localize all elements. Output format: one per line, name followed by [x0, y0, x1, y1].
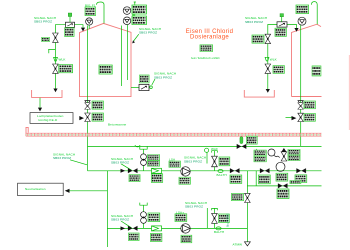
sample tap T left: [48, 50, 55, 54]
actuator symbol above left control valve: [68, 13, 72, 22]
green stub from LIA circle into tank: [88, 25, 90, 29]
svg-text:WLK: WLK: [270, 57, 278, 61]
flow arrow line 1: [121, 169, 126, 173]
drain valve funnel top: [85, 101, 90, 103]
label block right of lower circle: [132, 16, 146, 25]
tank B1 vent gooseneck: [97, 2, 105, 23]
label right of damper line 2: [148, 213, 160, 222]
actuator arrow at drain valve D2: [79, 116, 84, 120]
label below check valve line 2: [151, 233, 162, 241]
svg-text:Neutralisation: Neutralisation: [25, 187, 46, 191]
actuator above control valve B2: [280, 14, 284, 22]
label below mid valve line1: [230, 175, 242, 183]
level instrument circle on tank B2 roof: [298, 17, 306, 25]
label below control valve B2: [275, 28, 286, 36]
dosing pump 2: [181, 224, 190, 233]
check valve line 2 (green): [152, 226, 162, 231]
valve line 1 right (black bowtie): [260, 168, 269, 173]
control valve box U1 (left fill): [66, 22, 75, 27]
tray drain line: [39, 98, 41, 108]
label below right valve line1: [259, 175, 271, 184]
damper stem line 1: [143, 149, 145, 171]
isolating valve line 2 (black bowtie): [128, 226, 137, 231]
svg-text:BALTH: BALTH: [214, 230, 224, 234]
fill piping tank B2: [268, 25, 297, 35]
svg-text:WLK: WLK: [59, 58, 67, 62]
drain valve D1 tank B2: [298, 103, 304, 109]
label right of damper line 1 (two blocks): [148, 155, 160, 161]
hand valve V2 lower (vertical bowtie): [53, 64, 59, 73]
leader from signal text to line 2: [206, 208, 208, 228]
funnel above damper line 2: [140, 203, 147, 206]
pipe rack hook left end: [26, 127, 28, 136]
pulsation damper circles line 1: [141, 154, 147, 166]
label above pump 2: [175, 214, 187, 222]
green instrument circlet left of vent valve: [205, 148, 209, 152]
feed arrow into tank B1 roof: [81, 28, 85, 32]
fill line vertical below V1: [54, 42, 56, 88]
flow arrow line 2: [121, 226, 126, 230]
tank B2 vent gooseneck: [311, 2, 317, 25]
leader to signal text: [152, 79, 155, 85]
motor valve on header (black bowtie): [237, 144, 246, 149]
label below line1 valve: [129, 175, 140, 182]
funnel WLK on B2 fill line: [265, 57, 269, 61]
tiny green mark right of title: [253, 42, 255, 44]
leader to line2 valve: [121, 221, 132, 228]
label right of B2 drain valve D2: [304, 114, 315, 122]
discharge damper circle pump1: [276, 162, 285, 171]
vent umbrella line 1: [212, 151, 218, 156]
hand valve on B2 fill line: [265, 64, 271, 73]
actuator arrow + tail at B2 drain valve D2: [286, 116, 297, 120]
vent umbrella line 2: [212, 208, 218, 213]
relief valve (vertical bowtie): [281, 152, 287, 161]
hand valve V1 on fill line (vertical bowtie): [53, 33, 59, 42]
valve line1 far right (black bowtie): [297, 168, 306, 173]
svg-text:BALTH: BALTH: [217, 173, 227, 177]
label left of drop valve: [232, 193, 244, 200]
label below far right valve: [295, 175, 307, 183]
rotated green mark right of line2: [226, 214, 230, 228]
arrow into neutralisation box: [65, 189, 70, 193]
svg-text:SB03 PROZ: SB03 PROZ: [111, 218, 129, 222]
label block tank B1 top: [85, 7, 96, 16]
svg-text:beim Teilabbruch entfällt: beim Teilabbruch entfällt: [191, 56, 220, 60]
tank B2 (right storage tank, red outline, cut at right): [292, 24, 322, 96]
pressure gauge circle: [268, 149, 275, 156]
funnel WLK on fill line: [54, 57, 58, 61]
suction line 1: [88, 170, 322, 172]
label block tank B1 centre: [99, 65, 112, 74]
labels right of relief valve: [288, 149, 300, 155]
instrument circle pair top (LSA) lower: [123, 17, 131, 25]
leader below circlet: [206, 152, 208, 163]
svg-text:SB03 PROZ: SB03 PROZ: [139, 31, 157, 35]
fill line control valve piping (left): [55, 25, 83, 33]
stub from vent valve to line 1: [214, 167, 216, 171]
arrow into drip tray: [53, 89, 57, 93]
tiny green tick between circle labels: [132, 15, 135, 16]
label right of valve V2: [59, 65, 73, 73]
svg-text:SB03 PROZ: SB03 PROZ: [53, 156, 71, 160]
atmosphere drain triangle: [245, 242, 251, 246]
tank B2 internal dip / drain line: [300, 25, 302, 146]
branch to neutralisation box: [66, 190, 107, 192]
label below line B valve: [277, 189, 289, 198]
actuator circlet right of box: [150, 86, 153, 89]
svg-text:SB03 PROZ: SB03 PROZ: [184, 159, 202, 163]
svg-text:SB03 PROZ: SB03 PROZ: [185, 205, 203, 209]
label stack left of relief assembly: [254, 150, 266, 156]
drain valve D2 (tank B1): [85, 113, 91, 121]
small label right of line B valve: [290, 180, 301, 183]
label block right of upper circle: [132, 5, 146, 14]
leader from text to drain line: [70, 160, 87, 165]
label right of vent valve line2: [219, 214, 230, 223]
label left of valve V1: [42, 37, 50, 41]
valve line 1 mid (black bowtie): [230, 168, 239, 173]
faint border line right edge: [348, 55, 350, 130]
pipe rack dashed band: [26, 133, 322, 136]
isolating valve line 1 (black bowtie): [128, 168, 137, 173]
tank B1 drain line vertical: [87, 26, 89, 171]
svg-text:ATMW: ATMW: [233, 242, 243, 246]
control valve box right of tank B1: [139, 84, 149, 90]
label block below title: [200, 45, 213, 52]
dip tube 2 inside tank B1: [127, 25, 129, 80]
drain valve D1 (tank B1): [85, 103, 91, 109]
label right of B2 fill hand valve: [273, 66, 284, 74]
vent valve line 1 (vertical bowtie): [212, 156, 218, 167]
damper stem line 2: [143, 205, 145, 228]
funnel above damper line 1: [140, 147, 147, 150]
label above control box right of tank B1: [140, 75, 150, 83]
label right of B2 drain valve D1: [304, 101, 315, 109]
label below discharge damper: [276, 173, 288, 181]
header line from tanks: [88, 145, 322, 147]
drain valve on drop (vertical bowtie): [245, 193, 251, 202]
svg-text:künftig KE-D: künftig KE-D: [39, 118, 58, 122]
gauge link squiggle: [274, 156, 280, 158]
label below line2 valve: [129, 233, 140, 241]
drip tray 2 (red): [244, 90, 274, 97]
tank B1 (left storage tank, red outline): [80, 23, 132, 96]
suction line 2: [107, 227, 247, 229]
motor actuator capsule on header valve: [240, 137, 243, 144]
svg-text:SB03 PROZ: SB03 PROZ: [245, 20, 263, 24]
arrowhead at tank wall: [132, 40, 135, 43]
label right of vent valve line1: [219, 157, 230, 166]
green tick above circle pair: [134, 2, 136, 5]
svg-text:WAF: WAF: [211, 147, 218, 151]
feed arrow into tank B2: [294, 28, 298, 32]
valve on line B (black bowtie): [278, 184, 287, 189]
label right of drain valve D1: [92, 101, 103, 109]
drop line to suction line 2: [106, 171, 108, 247]
label block below left control valve: [65, 28, 75, 37]
instrument circle pair top (LSA) upper: [123, 7, 131, 15]
drip tray 1 (red): [32, 90, 62, 97]
svg-text:SB03 PR: SB03 PR: [226, 214, 230, 228]
arrow into drip tray 2: [266, 89, 270, 93]
arrow into box 1: [38, 108, 42, 112]
box Lochplattenboden: [30, 113, 73, 124]
vent valve line 2 (vertical bowtie): [212, 213, 218, 223]
svg-text:Betonwanne: Betonwanne: [108, 122, 127, 126]
drain valve funnel top (tank B2): [298, 101, 303, 103]
label right of header valve: [246, 136, 257, 144]
box Neutralisation: [18, 183, 64, 195]
tiny green triangle above gauge labels: [255, 149, 258, 152]
label above pump 1: [169, 161, 180, 167]
label below check valve line 1: [151, 174, 162, 183]
svg-text:SB03 PROZ: SB03 PROZ: [111, 161, 129, 165]
stub vent valve to line 2: [214, 223, 216, 228]
level instrument circle LIA on tank B1 roof: [86, 18, 93, 25]
label below pump 1: [179, 177, 190, 184]
check valve line 1 (green): [152, 168, 162, 173]
sight glass oval line 2: [216, 227, 221, 230]
label block tank B2 top: [296, 5, 309, 14]
fill line vertical below valve: [267, 44, 269, 89]
loop seal notch on header: [135, 145, 140, 147]
dip tube 1 inside tank B1: [120, 26, 122, 87]
fill valve tank B2 (vertical bowtie): [265, 34, 271, 43]
pulsation damper circles line 2: [141, 212, 147, 224]
nozzle line tank B1 right wall: [131, 86, 139, 88]
svg-text:SB03 PROZ: SB03 PROZ: [154, 75, 172, 79]
label right of drain valve D2: [92, 113, 103, 121]
svg-text:Dosieranlage: Dosieranlage: [190, 35, 229, 41]
relief arrow up: [282, 148, 287, 152]
label block tank B2 centre: [312, 66, 321, 76]
branch line B drop: [247, 171, 322, 186]
drain valve D2 tank B2: [298, 113, 304, 121]
leader from signal text to tank wall: [134, 34, 139, 41]
label below pump 2: [181, 235, 192, 243]
drain drop at x=247: [246, 171, 248, 242]
label left of fill valve B2: [252, 35, 264, 43]
sight glass oval line 1: [218, 170, 223, 173]
svg-text:SB03 PROZ: SB03 PROZ: [34, 20, 52, 24]
dosing pump 1: [181, 167, 190, 176]
leader to line1 valve: [121, 164, 132, 170]
control valve box tank B2: [277, 22, 287, 27]
svg-text:B01 F1: B01 F1: [85, 3, 96, 7]
